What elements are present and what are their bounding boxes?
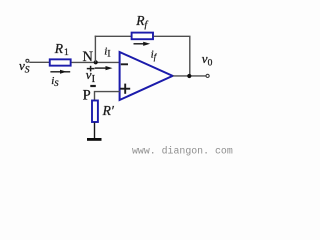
svg-text:N: N [83,49,94,65]
svg-text:R′: R′ [102,103,115,118]
op-amp U1 triangle [120,52,173,100]
output terminal circle (vO) [206,74,209,77]
current arrow iS [50,70,70,74]
output junction dot [187,74,191,78]
ground [87,138,102,141]
wire P corner to op-amp noninverting input [95,92,120,101]
op-amp inverting input symbol (minus) [121,63,128,65]
node N junction dot [94,60,98,64]
wire N up to feedback branch [94,36,96,63]
resistor Rf [132,33,153,40]
input terminal circle (vS) [26,59,29,62]
current arrow if [134,42,151,46]
polarity minus for vI (above P) [90,85,96,87]
op-amp noninverting input symbol (plus) [120,84,130,94]
wire R' to ground [94,123,96,140]
resistor R' [92,101,98,123]
wire R1 to node N and on to op-amp inverting input [72,61,120,63]
svg-text:www. diangon. com: www. diangon. com [132,145,233,156]
feedback wire vertical right (down to output node) [189,36,191,76]
feedback wire right segment (Rf to output branch) [154,35,191,37]
svg-text:P: P [83,88,91,104]
polarity plus for vI (below node N) [87,66,95,72]
current arrow iI [95,66,113,70]
wire vS terminal to R1 [29,61,49,63]
output wire op-amp apex to terminal [173,75,206,77]
feedback wire left segment (N to Rf) [95,35,132,37]
resistor R1 [50,59,71,65]
